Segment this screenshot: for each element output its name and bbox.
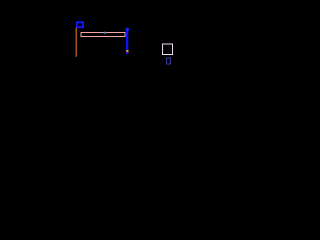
wire (orange vertical trace from pad P1) xyxy=(75,28,77,57)
resistor R1 body (salmon rectangle outline) xyxy=(81,33,125,37)
pad cap at top of blue trace xyxy=(126,28,129,31)
capacitor C1 body (white/lavender square outline) xyxy=(163,44,173,55)
pad P2 (dark blue rectangle outline below C1) xyxy=(167,58,171,64)
pad P1 (blue square pad, top-left) xyxy=(77,22,83,27)
wire (blue vertical trace, right of R1) xyxy=(126,28,128,54)
node A (cyan junction dot on top edge of R1) xyxy=(104,32,106,34)
via / node B (orange dot on blue trace) xyxy=(126,50,128,52)
